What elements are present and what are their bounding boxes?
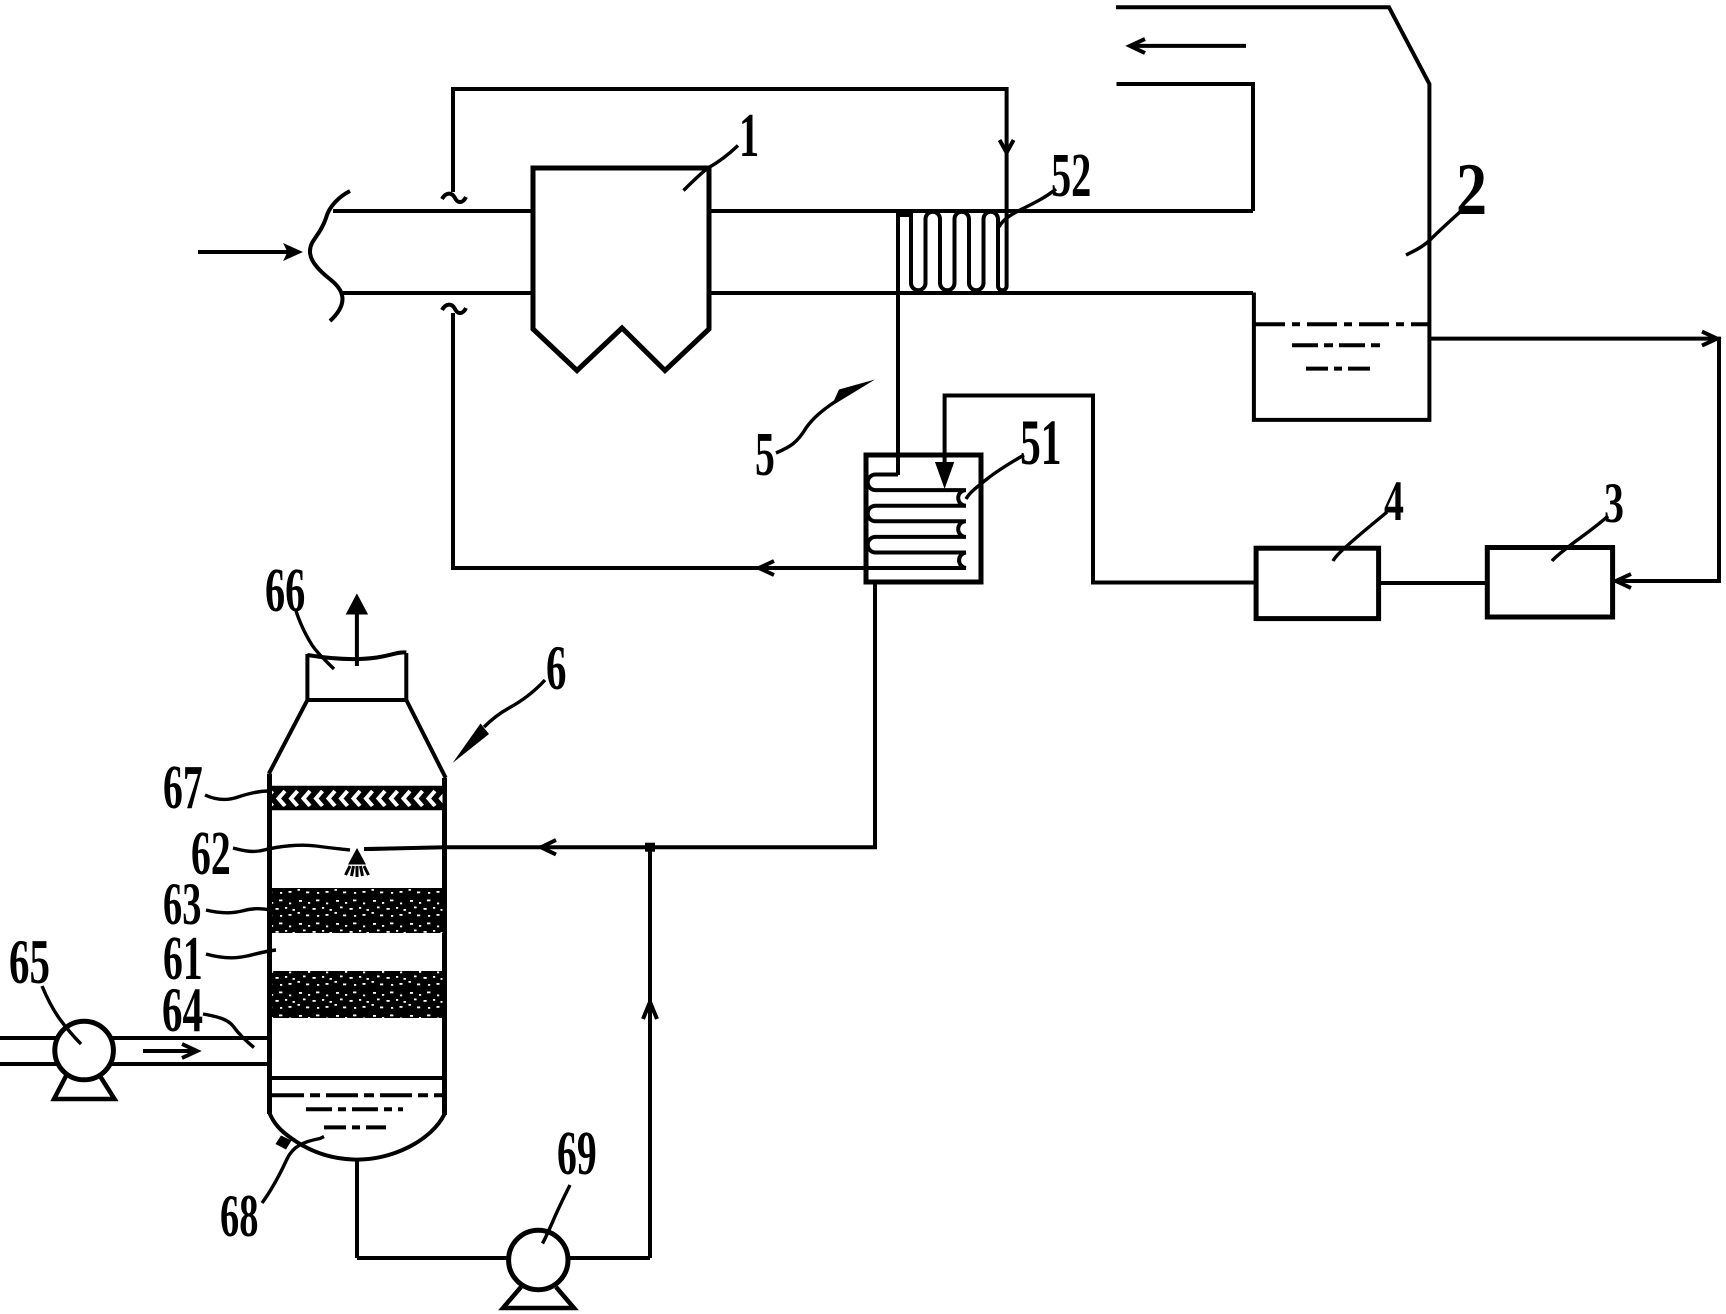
spray nozzle 62 [348,848,366,865]
wavy arrow leader for 5 [776,401,836,453]
wire tank 2 outlet [1429,339,1719,581]
leader for 51 [966,455,1024,499]
wire duct top line left segment [333,209,533,213]
wavy arrow leader for 6 [484,680,545,727]
packing bed interlayer 61 / second bed [272,971,443,1018]
leader for 64 [203,1014,254,1048]
liquid chain line 2 [1292,343,1386,347]
svg-text:69: 69 [557,1120,597,1188]
flue gas inlet arrow [198,250,288,254]
svg-text:5: 5 [755,421,775,489]
leader for 2 [1406,212,1460,255]
flue duct 2 outer contour [1116,7,1429,420]
svg-text:2: 2 [1456,148,1487,230]
arrow into condenser [938,464,952,483]
stack walls [307,653,406,700]
packing bed 63 [272,888,443,933]
wire from reagent tank 4 to condenser 51 [945,396,1256,583]
svg-text:64: 64 [162,974,203,1045]
svg-text:4: 4 [1384,469,1404,533]
flow arrow down on riser of coil 52 [1000,140,1014,153]
wire heat pipe return line to condenser [453,313,966,568]
leader for 68 [262,1137,324,1204]
arrowhead of leader 6 [453,724,489,764]
leader for 1 [684,146,739,191]
wire duct top line right segment [709,209,1253,213]
flow arrow left on return line [759,561,774,575]
svg-text:65: 65 [9,926,50,997]
wire between box 3 and box 4 [1379,581,1488,585]
svg-text:6: 6 [546,632,566,703]
condenser box 51 [866,455,981,582]
svg-text:1: 1 [739,101,759,170]
flow arrow left on spray line [541,840,556,855]
leader lines [42,146,1608,1244]
leader for 52 [999,189,1056,227]
scrubber tower 6: stack top [307,652,406,659]
svg-text:67: 67 [163,754,203,822]
svg-text:52: 52 [1051,141,1091,210]
tower cone [269,700,446,778]
leader for 3 [1552,516,1608,561]
leader for 66 [296,611,334,669]
wire duct bottom line right segment [709,291,1253,295]
svg-text:66: 66 [265,556,305,625]
leader for 67 [205,791,269,799]
flow arrow right in pipe [143,1049,193,1053]
arrowhead of leader 5 [832,380,876,407]
heat pipe loop 5 top run with evaporator coil 52 [453,89,1007,475]
pump 65 [54,1021,115,1099]
liquid chain line 3 [1306,367,1370,371]
stack bottom / cone top [307,698,406,702]
wire bottom pipe to pump 69 [357,1256,650,1260]
pump 69 [503,1230,574,1308]
flue gas arrow in duct 2 [1130,44,1246,48]
drain nub on bottom wall [276,1136,292,1150]
wire condenser bottom outlet to spray line [445,582,875,847]
leader for 65 [42,986,81,1044]
liquid level chain line in tank 2 [1255,322,1429,326]
leader for 63 [206,909,271,913]
sump top line [270,1076,445,1080]
slurry inlet pipe 64 [0,1038,267,1064]
svg-text:3: 3 [1604,471,1624,535]
boiler outlet device 1 [533,168,709,371]
device box 4 [1256,548,1379,618]
junction dot spray line riser [645,843,655,852]
duct break symbol [310,191,350,321]
svg-text:51: 51 [1020,406,1062,479]
leader for 69 [543,1185,571,1244]
device box 3 [1487,548,1612,618]
flow arrow left into box 3 [1616,574,1631,588]
wire recirculation riser [648,847,652,1258]
leader for 4 [1333,512,1387,561]
gas outlet arrow 66 [355,613,359,666]
flue duct 2 inner contour [1117,84,1254,211]
leader for 62 [233,845,350,851]
wire duct bottom line left segment [343,291,533,295]
break squiggle top [442,194,466,202]
wire tower bottom outlet [355,1159,359,1258]
leader for 61 [206,950,276,958]
demister 67 band [272,787,443,810]
svg-text:68: 68 [220,1182,258,1249]
tower walls [270,774,445,1115]
flow arrow right before corner [1702,332,1717,346]
wire spray line inside tower [364,847,445,849]
tower dished bottom [270,1113,445,1160]
break squiggle bottom [442,305,466,313]
flow arrow up on riser [643,1002,657,1019]
sump liquid chain lines 68 [272,1093,443,1097]
